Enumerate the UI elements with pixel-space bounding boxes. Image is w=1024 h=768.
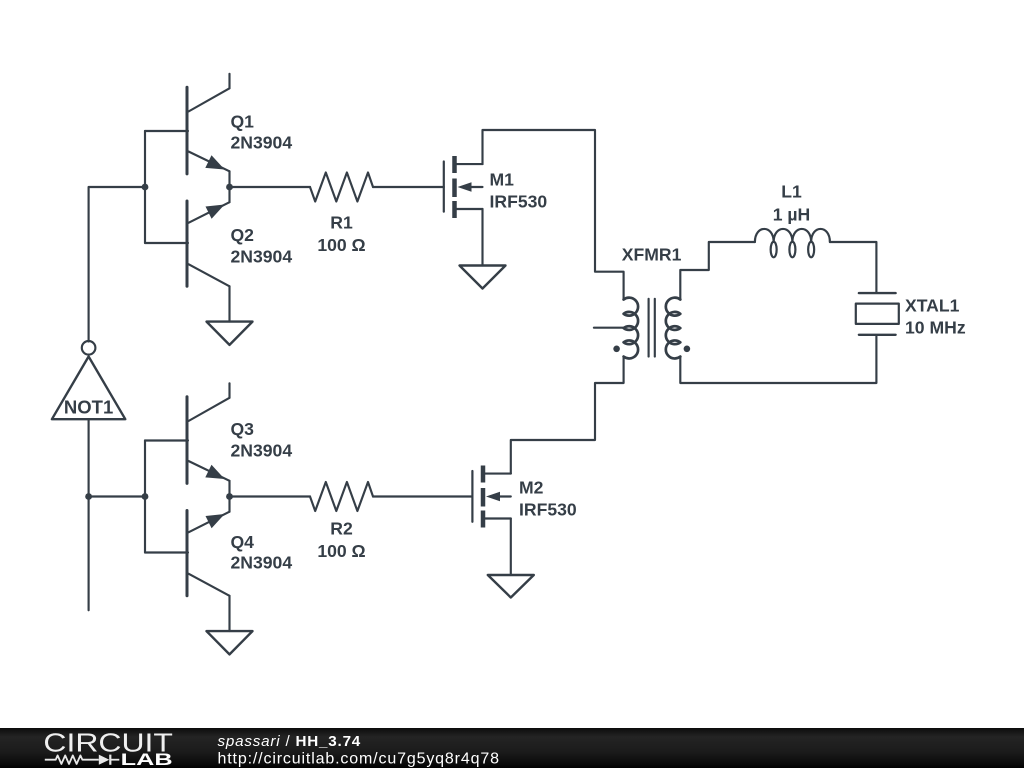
wire Q1 base stub [145, 130, 188, 132]
wire M1 drain to XFMR1 primary top [483, 130, 624, 300]
wire Q1 collector stub [228, 74, 230, 89]
wire Q2 collector to ground [228, 286, 230, 321]
svg-text:L1: L1 [781, 182, 802, 202]
wire XTAL1 bottom to XFMR1 secondary bottom [680, 336, 876, 383]
resistor R1 [310, 173, 373, 256]
svg-text:IRF530: IRF530 [519, 500, 577, 520]
transistor M1 [444, 156, 548, 218]
wire Q3 base stub [145, 439, 188, 441]
svg-text:spassari / HH_3.74: spassari / HH_3.74 [218, 733, 362, 750]
node D junction dot [226, 184, 233, 191]
crystal XTAL1 [856, 293, 966, 337]
svg-text:M2: M2 [519, 478, 544, 498]
svg-text:XTAL1: XTAL1 [905, 296, 960, 316]
wire input to Q3Q4 bases [89, 495, 145, 497]
svg-text:Q3: Q3 [231, 419, 255, 439]
svg-text:2N3904: 2N3904 [231, 133, 293, 153]
wire R2 to M2 gate [373, 495, 472, 497]
svg-text:IRF530: IRF530 [490, 192, 548, 212]
inductor L1 [755, 182, 830, 258]
transistor Q4 [187, 497, 292, 596]
transistor Q1 [187, 87, 292, 187]
ground below M1 [460, 266, 506, 289]
wire node E to R2 [230, 495, 311, 497]
svg-text:100 Ω: 100 Ω [317, 541, 365, 561]
wire Q3Q4 base link [144, 441, 146, 553]
svg-text:2N3904: 2N3904 [231, 247, 293, 267]
svg-text:1 µH: 1 µH [773, 205, 811, 225]
ground below M2 [488, 575, 534, 598]
node E junction dot [226, 493, 233, 500]
svg-text:10 MHz: 10 MHz [905, 318, 966, 338]
svg-text:Q1: Q1 [231, 112, 255, 132]
wire Q2 base stub [145, 242, 188, 244]
transistor Q2 [187, 187, 292, 286]
ground below Q4 [207, 631, 253, 654]
wire M1 source to ground [481, 209, 483, 266]
wire M2 source to ground [510, 519, 512, 576]
wire Q1Q2 base link [144, 131, 146, 243]
inverter NOT1 [52, 341, 125, 419]
wire node D to R1 [230, 186, 311, 188]
svg-text:Q4: Q4 [231, 532, 255, 552]
svg-text:2N3904: 2N3904 [231, 441, 293, 461]
svg-text:http://circuitlab.com/cu7g5yq8: http://circuitlab.com/cu7g5yq8r4q78 [218, 751, 500, 768]
svg-text:2N3904: 2N3904 [231, 553, 293, 573]
svg-text:100 Ω: 100 Ω [317, 235, 365, 255]
node C junction dot [142, 493, 149, 500]
ground below Q2 [207, 322, 253, 345]
wire Q4 collector to ground [228, 596, 230, 631]
wire L1 to XTAL1 [830, 242, 877, 292]
svg-text:NOT1: NOT1 [64, 397, 113, 418]
wire Q4 base stub [145, 551, 188, 553]
wire NOT1 input lower stub [88, 419, 90, 610]
logo resistor-diode glyph [45, 755, 120, 765]
svg-text:R1: R1 [330, 213, 353, 233]
wire M2 drain to XFMR1 primary bottom [511, 357, 624, 474]
svg-text:Q2: Q2 [231, 225, 255, 245]
wire R1 to M1 gate [373, 186, 444, 188]
svg-text:LAB: LAB [121, 751, 173, 768]
transistor Q3 [187, 397, 292, 497]
resistor R2 [310, 482, 373, 561]
transformer XFMR1 [594, 245, 690, 359]
node B junction dot [142, 184, 149, 191]
transistor M2 [472, 466, 577, 528]
wire Q3 collector stub [228, 383, 230, 398]
svg-text:M1: M1 [490, 170, 515, 190]
wire NOT1 output to base node [89, 187, 145, 342]
svg-text:R2: R2 [330, 519, 353, 539]
svg-text:XFMR1: XFMR1 [622, 245, 682, 265]
node A junction dot [85, 493, 92, 500]
wire XFMR1 secondary top to L1 [680, 242, 755, 300]
footer bar [0, 728, 1024, 768]
